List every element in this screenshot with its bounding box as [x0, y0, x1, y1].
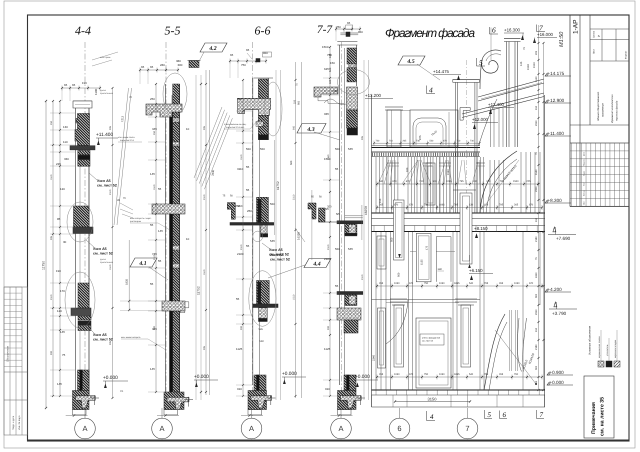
svg-text:265: 265: [499, 373, 504, 376]
facade belt course at +8.3: [372, 212, 546, 214]
svg-text:1510: 1510: [292, 294, 295, 300]
svg-text:125: 125: [329, 53, 332, 58]
svg-text:+8.300: +8.300: [548, 198, 563, 203]
svg-text:670: 670: [392, 180, 397, 183]
svg-text:905: 905: [361, 135, 364, 140]
svg-text:670: 670: [409, 204, 414, 207]
facade upper pilasters: [375, 157, 377, 213]
svg-text:11752: 11752: [197, 286, 201, 295]
svg-text:860: 860: [358, 30, 363, 34]
section 6-6 axis line: [252, 42, 254, 418]
legend square solid: [606, 361, 612, 367]
svg-text:2410: 2410: [535, 272, 538, 278]
facade dim chain y=377: [377, 376, 542, 378]
facade verticals under volute: [490, 108, 492, 147]
7-7 top dimension cluster: [336, 28, 360, 30]
frame bottom thick line: [28, 439, 630, 441]
axis circle А at x=162: [152, 418, 173, 439]
left auxiliary stamp table: [4, 287, 28, 435]
elevation +14.175: [545, 73, 547, 76]
elevation +11.400 right: [545, 133, 547, 136]
6-6 black band: [258, 135, 268, 140]
svg-text:120: 120: [60, 187, 65, 191]
svg-text:+0.000: +0.000: [550, 380, 565, 385]
svg-text:950: 950: [298, 100, 301, 105]
fan 5-5 to 6-6: [194, 107, 222, 178]
svg-text:11750: 11750: [42, 261, 46, 270]
axis circle А at x=251.5: [241, 418, 262, 439]
attic inner rounded panel: [413, 118, 446, 145]
7-7 hatch below slab: [347, 110, 358, 128]
svg-text:670: 670: [409, 373, 414, 376]
capital level lines: [372, 298, 481, 300]
svg-text:65: 65: [141, 65, 145, 69]
svg-text:см. лист 52: см. лист 52: [93, 252, 113, 256]
svg-text:1510: 1510: [109, 264, 112, 270]
7-7 footing bottom box: [338, 410, 352, 415]
4-4 top dimension cluster: [62, 87, 100, 89]
6-6 mid hatched block: [257, 197, 269, 222]
svg-text:670: 670: [529, 282, 534, 285]
4-4 footing bottom box: [73, 410, 87, 415]
lower right arcs: [484, 314, 505, 390]
facade dim chain y=207: [377, 207, 542, 209]
7-7 parapet cap: [337, 40, 357, 42]
svg-text:65: 65: [64, 83, 68, 87]
6-6 top dimension cluster: [230, 60, 266, 62]
7-7 black band: [347, 128, 358, 135]
elevation +12.900: [545, 100, 547, 103]
svg-text:Лист: Лист: [583, 182, 586, 186]
svg-text:+0.000: +0.000: [355, 374, 370, 380]
svg-text:530: 530: [379, 180, 384, 183]
left upper niche: [377, 236, 386, 269]
svg-text:145: 145: [150, 172, 155, 176]
svg-text:130: 130: [469, 204, 474, 207]
svg-text:265: 265: [379, 282, 384, 285]
svg-text:900: 900: [535, 365, 538, 370]
svg-text:225: 225: [526, 180, 531, 183]
7-7 lower sill band: [337, 292, 363, 295]
svg-text:265: 265: [499, 282, 504, 285]
svg-text:860: 860: [263, 51, 268, 55]
elevation +4.200: [545, 289, 547, 292]
sloped cornice band 2: [462, 93, 544, 114]
4-4 callout ellipse mid: [67, 202, 93, 242]
svg-text:750: 750: [241, 63, 246, 67]
svg-text:795: 795: [500, 180, 505, 183]
svg-text:950: 950: [391, 237, 394, 242]
svg-text:130: 130: [473, 180, 478, 183]
svg-text:750: 750: [424, 373, 429, 376]
facade attic wall: [410, 110, 458, 147]
svg-text:Здание общественного: Здание общественного: [597, 91, 600, 121]
svg-text:55: 55: [246, 165, 250, 169]
svg-text:пропитанная: пропитанная: [100, 261, 114, 264]
5-5 top dimension cluster: [140, 69, 178, 71]
svg-text:7: 7: [540, 411, 544, 419]
centre panel: [416, 318, 451, 388]
svg-text:1096: 1096: [446, 180, 452, 183]
6-6 lower sill assembly: [253, 304, 278, 308]
6-6 vent box: [256, 121, 263, 126]
svg-text:1096: 1096: [439, 204, 445, 207]
svg-text:55: 55: [236, 297, 240, 301]
6-6 wall outline: [252, 78, 254, 385]
svg-text:А: А: [159, 424, 164, 433]
svg-text:280: 280: [160, 63, 165, 67]
bottom axis tick 5: [484, 410, 486, 419]
svg-text:1540: 1540: [513, 180, 519, 183]
facade cornice at +12.4 level: [372, 147, 481, 149]
svg-text:Р: Р: [597, 35, 601, 37]
svg-text:910: 910: [237, 387, 242, 391]
svg-text:170: 170: [60, 289, 65, 293]
svg-text:65: 65: [246, 48, 250, 52]
svg-text:160: 160: [406, 167, 409, 172]
svg-text:2180: 2180: [535, 236, 538, 242]
svg-text:швы затереть с кирп.: швы затереть с кирп.: [130, 217, 152, 220]
note box Примечание: [584, 376, 614, 438]
svg-text:Узел А5: Узел А5: [93, 247, 107, 251]
svg-text:1560: 1560: [327, 154, 330, 160]
4-4 left dimension chain: [59, 101, 61, 396]
svg-text:6: 6: [503, 411, 507, 419]
4-4 benchmark cross: [93, 395, 95, 405]
svg-text:560: 560: [335, 247, 340, 251]
svg-text:4: 4: [429, 86, 433, 95]
svg-text:125: 125: [520, 61, 523, 66]
axis circle 7 at x=467.5: [457, 418, 478, 439]
svg-text:670: 670: [394, 204, 399, 207]
svg-text:4.1: 4.1: [138, 261, 146, 267]
7-7 callout ellipse: [338, 70, 370, 95]
svg-text:швы прим.: швы прим.: [100, 56, 111, 59]
svg-text:250: 250: [153, 130, 156, 135]
svg-text:250: 250: [235, 204, 240, 208]
svg-text:795: 795: [459, 180, 464, 183]
svg-text:55: 55: [335, 167, 339, 171]
svg-text:145: 145: [57, 382, 62, 386]
svg-text:2340: 2340: [373, 355, 376, 361]
7-7 base widened block: [338, 391, 357, 410]
5-5 left flank cluster: [120, 203, 133, 210]
facade bottom dim 3150: [395, 401, 470, 403]
svg-text:795: 795: [454, 204, 459, 207]
baluster verticals lower right: [509, 310, 511, 371]
facade dim chain y=286: [377, 285, 542, 287]
6-6 hatch below slab: [258, 115, 268, 135]
svg-text:905: 905: [203, 125, 206, 130]
bottom axis tick 4: [426, 411, 428, 421]
svg-text:N5: N5: [325, 207, 329, 211]
flag 4.1: [130, 258, 157, 267]
svg-text:1510: 1510: [535, 76, 538, 82]
svg-text:1518: 1518: [527, 64, 530, 70]
7-7 top hatched column: [347, 48, 356, 64]
left narrow niche: [378, 308, 386, 368]
svg-text:6-6: 6-6: [255, 24, 271, 38]
svg-text:+13.200: +13.200: [365, 93, 382, 98]
svg-text:А: А: [249, 424, 254, 433]
4-4 footing stipple band: [76, 396, 96, 408]
section 4-4 axis line: [84, 42, 86, 418]
6-6 cornice slab: [238, 98, 271, 115]
flag 4.5: [398, 56, 425, 65]
svg-text:430: 430: [333, 89, 338, 93]
niche bottom arrow left: [398, 254, 401, 258]
7-7 break curve: [324, 99, 346, 105]
svg-text:900: 900: [50, 350, 53, 355]
5-5 benchmark cross: [187, 397, 189, 407]
svg-text:55: 55: [335, 284, 339, 288]
svg-text:1125: 1125: [420, 259, 423, 265]
svg-text:225: 225: [535, 50, 538, 55]
4-4 cornice hatched block: [75, 114, 90, 146]
7-7 floor slab: [337, 308, 361, 320]
legend square hatch: [614, 361, 620, 367]
elevation +7.690: [548, 234, 576, 236]
svg-text:225: 225: [294, 99, 297, 104]
svg-text:10: 10: [186, 127, 190, 131]
svg-text:2310: 2310: [292, 194, 295, 200]
axis 6 witness line: [490, 28, 492, 61]
svg-text:Формат: Формат: [625, 50, 628, 59]
svg-text:+16.300: +16.300: [504, 28, 521, 33]
svg-text:65: 65: [72, 83, 76, 87]
svg-text:190: 190: [56, 269, 61, 273]
facade upper window panels: [426, 163, 435, 205]
svg-text:4.2: 4.2: [208, 46, 216, 52]
svg-text:1030: 1030: [394, 282, 400, 285]
svg-text:отм. верха плиты: отм. верха плиты: [118, 136, 135, 139]
svg-text:4-4: 4-4: [75, 24, 91, 38]
svg-text:900: 900: [535, 293, 538, 298]
5-5 cornice slab: [146, 104, 182, 117]
svg-text:пропитанная: пропитанная: [100, 92, 114, 95]
svg-text:1125: 1125: [236, 347, 243, 351]
7-7 top slab right column: [347, 87, 358, 110]
svg-text:кирпичная кладка: кирпичная кладка: [614, 339, 617, 358]
base course joints: [375, 390, 377, 395]
big arch curve: [480, 151, 517, 213]
svg-text:Узел А5: Узел А5: [97, 179, 111, 183]
svg-text:А: А: [338, 424, 343, 433]
svg-text:1540: 1540: [447, 169, 450, 175]
bottom axis tick 7: [536, 410, 538, 419]
svg-text:175: 175: [426, 245, 429, 250]
svg-text:2180: 2180: [237, 252, 244, 256]
svg-text:380: 380: [178, 63, 183, 67]
svg-text:покрытия 97-й: покрытия 97-й: [120, 139, 135, 142]
facade upper niche right (crosses belt): [460, 193, 472, 264]
svg-text:265: 265: [535, 380, 538, 385]
6-6 callout ellipse: [249, 271, 276, 327]
6-6 footing stipple band: [251, 396, 272, 408]
5-5 lower slab: [162, 301, 185, 311]
svg-text:+11.400: +11.400: [548, 131, 565, 136]
svg-text:130: 130: [63, 125, 68, 129]
section 5-5 axis line: [165, 42, 167, 418]
7-7 footing stipple band: [341, 396, 362, 408]
svg-text:560: 560: [335, 147, 340, 151]
blade curve pair: [517, 318, 521, 372]
svg-text:2310: 2310: [535, 120, 538, 126]
svg-text:560: 560: [259, 340, 264, 343]
dim chain above cornice: [374, 142, 480, 144]
svg-text:510: 510: [433, 180, 438, 183]
svg-text:4.4: 4.4: [312, 261, 320, 267]
svg-text:+12.000: +12.000: [472, 117, 489, 122]
centre panel label box: [420, 334, 444, 345]
svg-text:Узел А5: Узел А5: [270, 253, 284, 257]
svg-text:+14.175: +14.175: [548, 71, 565, 76]
svg-text:2310: 2310: [50, 294, 53, 300]
svg-text:1895: 1895: [454, 282, 460, 285]
svg-text:545: 545: [348, 247, 353, 251]
svg-text:Обозначение: Обозначение: [6, 345, 9, 362]
6-6 stipple below sill: [260, 225, 267, 234]
6-6 top hatched column: [258, 79, 268, 99]
facade tower pilaster: [454, 83, 456, 214]
svg-text:225: 225: [56, 162, 61, 166]
svg-text:795: 795: [484, 282, 489, 285]
svg-text:№док: №док: [583, 171, 586, 176]
svg-text:1540: 1540: [535, 169, 538, 175]
dentil row under cornice: [372, 156, 481, 158]
svg-text:30: 30: [63, 240, 67, 244]
flag 4.3: [297, 124, 326, 134]
5-5 base widened block: [164, 392, 184, 410]
svg-text:2180: 2180: [324, 257, 331, 261]
svg-text:900: 900: [327, 325, 330, 330]
svg-text:чертежа фасада: чертежа фасада: [616, 100, 619, 121]
svg-text:265: 265: [514, 204, 519, 207]
svg-text:905: 905: [50, 235, 53, 240]
flag 4.4: [304, 259, 331, 268]
svg-text:545: 545: [348, 147, 353, 151]
7-7 lintel bracket cluster: [308, 203, 316, 219]
svg-text:см. лист 52: см. лист 52: [97, 184, 117, 188]
5-5 mid slab: [152, 204, 185, 214]
6-6 base widened block: [248, 391, 267, 410]
4-4 lower hatched block: [78, 283, 89, 308]
svg-text:150: 150: [330, 61, 335, 65]
legend leader lines: [600, 330, 602, 361]
facade mid-right verticals: [479, 160, 481, 213]
6-6 bottom dim: [241, 415, 263, 417]
svg-text:875: 875: [419, 135, 422, 140]
svg-text:330: 330: [64, 157, 69, 161]
7-7 upper sill band: [337, 221, 363, 224]
svg-text:140: 140: [438, 268, 443, 271]
big volute curve: [482, 50, 501, 73]
4-4 mid hatched block: [74, 206, 90, 227]
title block stamp outer: [569, 15, 571, 207]
svg-text:950: 950: [397, 272, 400, 277]
svg-text:Фрагмент фасада: Фрагмент фасада: [385, 26, 475, 40]
svg-text:+14.475: +14.475: [433, 69, 450, 74]
svg-text:4.5: 4.5: [406, 59, 414, 65]
5-5 footing stipple band: [167, 397, 189, 409]
svg-text:710: 710: [424, 204, 429, 207]
4-4 slab band: [70, 146, 95, 150]
legend square stipple: [598, 361, 604, 367]
svg-text:утепл. фасада №3: утепл. фасада №3: [422, 337, 441, 340]
svg-text:см. лист 52: см. лист 52: [270, 258, 290, 262]
5-5 callout ellipse top: [163, 73, 187, 115]
witness chain right of 4-4: [112, 88, 114, 398]
svg-text:доска: доска: [100, 89, 107, 92]
5-5 wall outline: [165, 84, 167, 392]
svg-text:145: 145: [60, 330, 65, 334]
svg-text:65: 65: [230, 53, 234, 57]
svg-text:905: 905: [292, 125, 295, 130]
svg-text:2310: 2310: [535, 309, 538, 315]
leader to uzel 7-7: [295, 228, 305, 242]
svg-text:790: 790: [514, 373, 519, 376]
svg-text:1-АР: 1-АР: [573, 20, 580, 34]
4-4 base insulation strip: [80, 370, 83, 410]
svg-text:120: 120: [57, 309, 62, 313]
svg-text:2310: 2310: [109, 189, 112, 195]
svg-text:345: 345: [152, 127, 157, 131]
4-4 base widened block: [73, 391, 90, 410]
elevation +3.790: [549, 308, 577, 310]
svg-text:Фрагмент колодчатого: Фрагмент колодчатого: [611, 94, 614, 123]
facade right edge verticals: [522, 232, 524, 390]
svg-text:55: 55: [158, 187, 162, 191]
svg-text:560: 560: [246, 147, 251, 151]
svg-text:N5: N5: [336, 212, 340, 216]
elevation +0.000 right: [547, 382, 549, 385]
svg-text:900: 900: [240, 325, 243, 330]
svg-text:керамическая плитка: керамическая плитка: [598, 335, 601, 358]
svg-text:доска: доска: [100, 258, 107, 261]
svg-text:+0.000: +0.000: [103, 375, 118, 381]
6-6 window jamb detail: [257, 281, 270, 305]
radius leader: [495, 330, 536, 384]
svg-text:1510: 1510: [533, 62, 536, 68]
svg-text:Условные обозначения: Условные обозначения: [589, 325, 592, 355]
svg-text:7: 7: [465, 424, 469, 433]
svg-text:1030: 1030: [394, 373, 400, 376]
elevation +8.300: [545, 200, 547, 203]
svg-text:1100: 1100: [94, 88, 98, 95]
svg-text:5-5: 5-5: [165, 24, 181, 38]
svg-text:4.3: 4.3: [306, 127, 314, 133]
svg-text:1895: 1895: [454, 373, 460, 376]
svg-text:5: 5: [488, 411, 492, 419]
arch radius leaders: [483, 160, 519, 208]
svg-text:250: 250: [50, 120, 53, 125]
7-7 lower window box: [345, 295, 357, 306]
axis circle А at x=341: [331, 418, 352, 439]
svg-text:250: 250: [247, 209, 252, 213]
svg-text:540: 540: [469, 373, 474, 376]
tower cap: [453, 78, 480, 80]
svg-text:4: 4: [430, 413, 434, 421]
svg-text:11752: 11752: [276, 181, 280, 190]
flag 4.2: [200, 43, 227, 52]
svg-text:545: 545: [259, 328, 264, 331]
svg-text:265: 265: [379, 373, 384, 376]
svg-text:2300: 2300: [535, 186, 538, 192]
svg-text:750: 750: [424, 282, 429, 285]
svg-text:1125: 1125: [324, 347, 331, 351]
6-6 base wall hatch: [254, 375, 266, 391]
4-4 bottom dim: [66, 415, 88, 417]
